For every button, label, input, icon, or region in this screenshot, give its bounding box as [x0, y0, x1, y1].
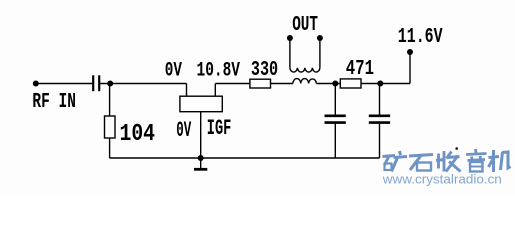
node OUT right terminal — [317, 35, 323, 41]
wire — [109, 138, 111, 158]
char yin 音 — [466, 149, 487, 172]
wire — [271, 83, 293, 85]
wire — [109, 84, 111, 117]
node 11.6V terminal — [407, 49, 413, 55]
wire pin1 — [186, 84, 188, 97]
node junction B — [332, 81, 338, 87]
char kuang 矿 — [383, 151, 408, 172]
transistor U1 IGF body — [180, 96, 222, 112]
svg-text:10.8V: 10.8V — [197, 60, 241, 83]
wire — [36, 83, 93, 85]
wire secondary left lead — [289, 38, 291, 68]
node junction A — [107, 81, 113, 87]
capacitor C2 — [325, 84, 346, 159]
char shou 收 — [436, 151, 461, 172]
wire to supply — [409, 52, 411, 84]
wire — [316, 83, 340, 85]
svg-text:330: 330 — [251, 58, 278, 82]
char ji 机 — [489, 150, 511, 172]
svg-text:0V: 0V — [176, 117, 191, 143]
svg-text:RF IN: RF IN — [32, 90, 76, 114]
wire — [100, 83, 186, 85]
svg-text:www.crystalradio.cn: www.crystalradio.cn — [382, 172, 502, 187]
ground — [194, 158, 207, 169]
wire pin3 — [200, 112, 202, 158]
wire — [215, 83, 250, 85]
capacitor C1 — [93, 75, 99, 91]
svg-text:11.6V: 11.6V — [398, 26, 443, 49]
resistor R3 471 — [340, 79, 361, 88]
node junction C — [377, 81, 383, 87]
wire ground rail — [110, 157, 380, 159]
resistor R1 104 — [105, 116, 116, 138]
wire — [361, 83, 410, 85]
capacitor C3 — [369, 84, 390, 159]
svg-text:OUT: OUT — [292, 14, 318, 37]
wire pin2 — [214, 84, 216, 97]
watermark chinese 矿石收音机 — [383, 149, 511, 172]
node ground junction — [198, 155, 204, 161]
inductor L1 transformer primary — [293, 79, 317, 84]
svg-text:IGF: IGF — [207, 115, 232, 141]
inductor L2 transformer secondary — [290, 68, 320, 72]
svg-text:0V: 0V — [165, 60, 183, 83]
svg-text:104: 104 — [120, 121, 156, 148]
svg-text:471: 471 — [346, 57, 374, 81]
node RF IN terminal — [33, 81, 39, 87]
resistor R2 330 — [250, 79, 271, 88]
node OUT left terminal — [287, 35, 293, 41]
node stray dot — [455, 147, 458, 150]
char shi 石 — [409, 155, 433, 171]
wire secondary right lead — [319, 38, 321, 68]
